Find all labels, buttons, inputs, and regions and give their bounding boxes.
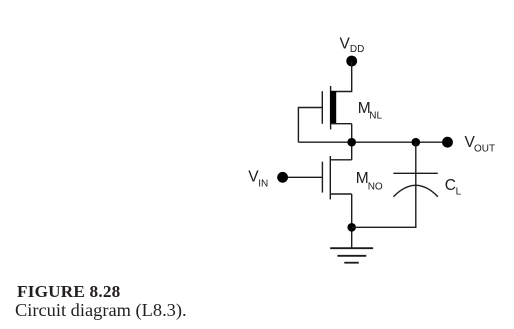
svg-text:C: C [445,177,456,194]
node ground junction [347,223,356,232]
node junction B [412,138,421,147]
capacitor CL [393,173,438,196]
wire MNO source lead [330,193,351,195]
wire capacitor branch [352,142,416,227]
svg-text:L: L [456,187,462,198]
ground [330,248,373,263]
wire output node line [298,141,447,143]
caption figure number [17,282,120,302]
wire rail MNL source to MNO drain [351,124,353,160]
transistor Q MNO (enhancement NMOS driver) [322,156,330,199]
svg-text:V: V [340,35,351,52]
svg-text:M: M [356,170,369,187]
wire MNL gate tie to source node [298,108,322,143]
wire VIN to MNO gate [284,176,322,178]
transistor U MNL (depletion NMOS load) [322,86,336,130]
wire MNL source lead [331,123,352,125]
node VDD terminal [346,56,357,67]
svg-text:IN: IN [258,178,268,189]
wire MNO source to ground [351,194,353,248]
node VOUT terminal [442,137,453,148]
node junction A [347,138,356,147]
svg-text:NL: NL [369,111,382,122]
svg-text:DD: DD [350,44,364,55]
svg-text:OUT: OUT [474,144,495,155]
wire MNO drain lead [330,159,351,161]
wire VDD to MNL drain [331,61,352,92]
svg-text:NO: NO [368,181,383,192]
node VIN terminal [277,172,288,183]
caption text [15,300,187,321]
